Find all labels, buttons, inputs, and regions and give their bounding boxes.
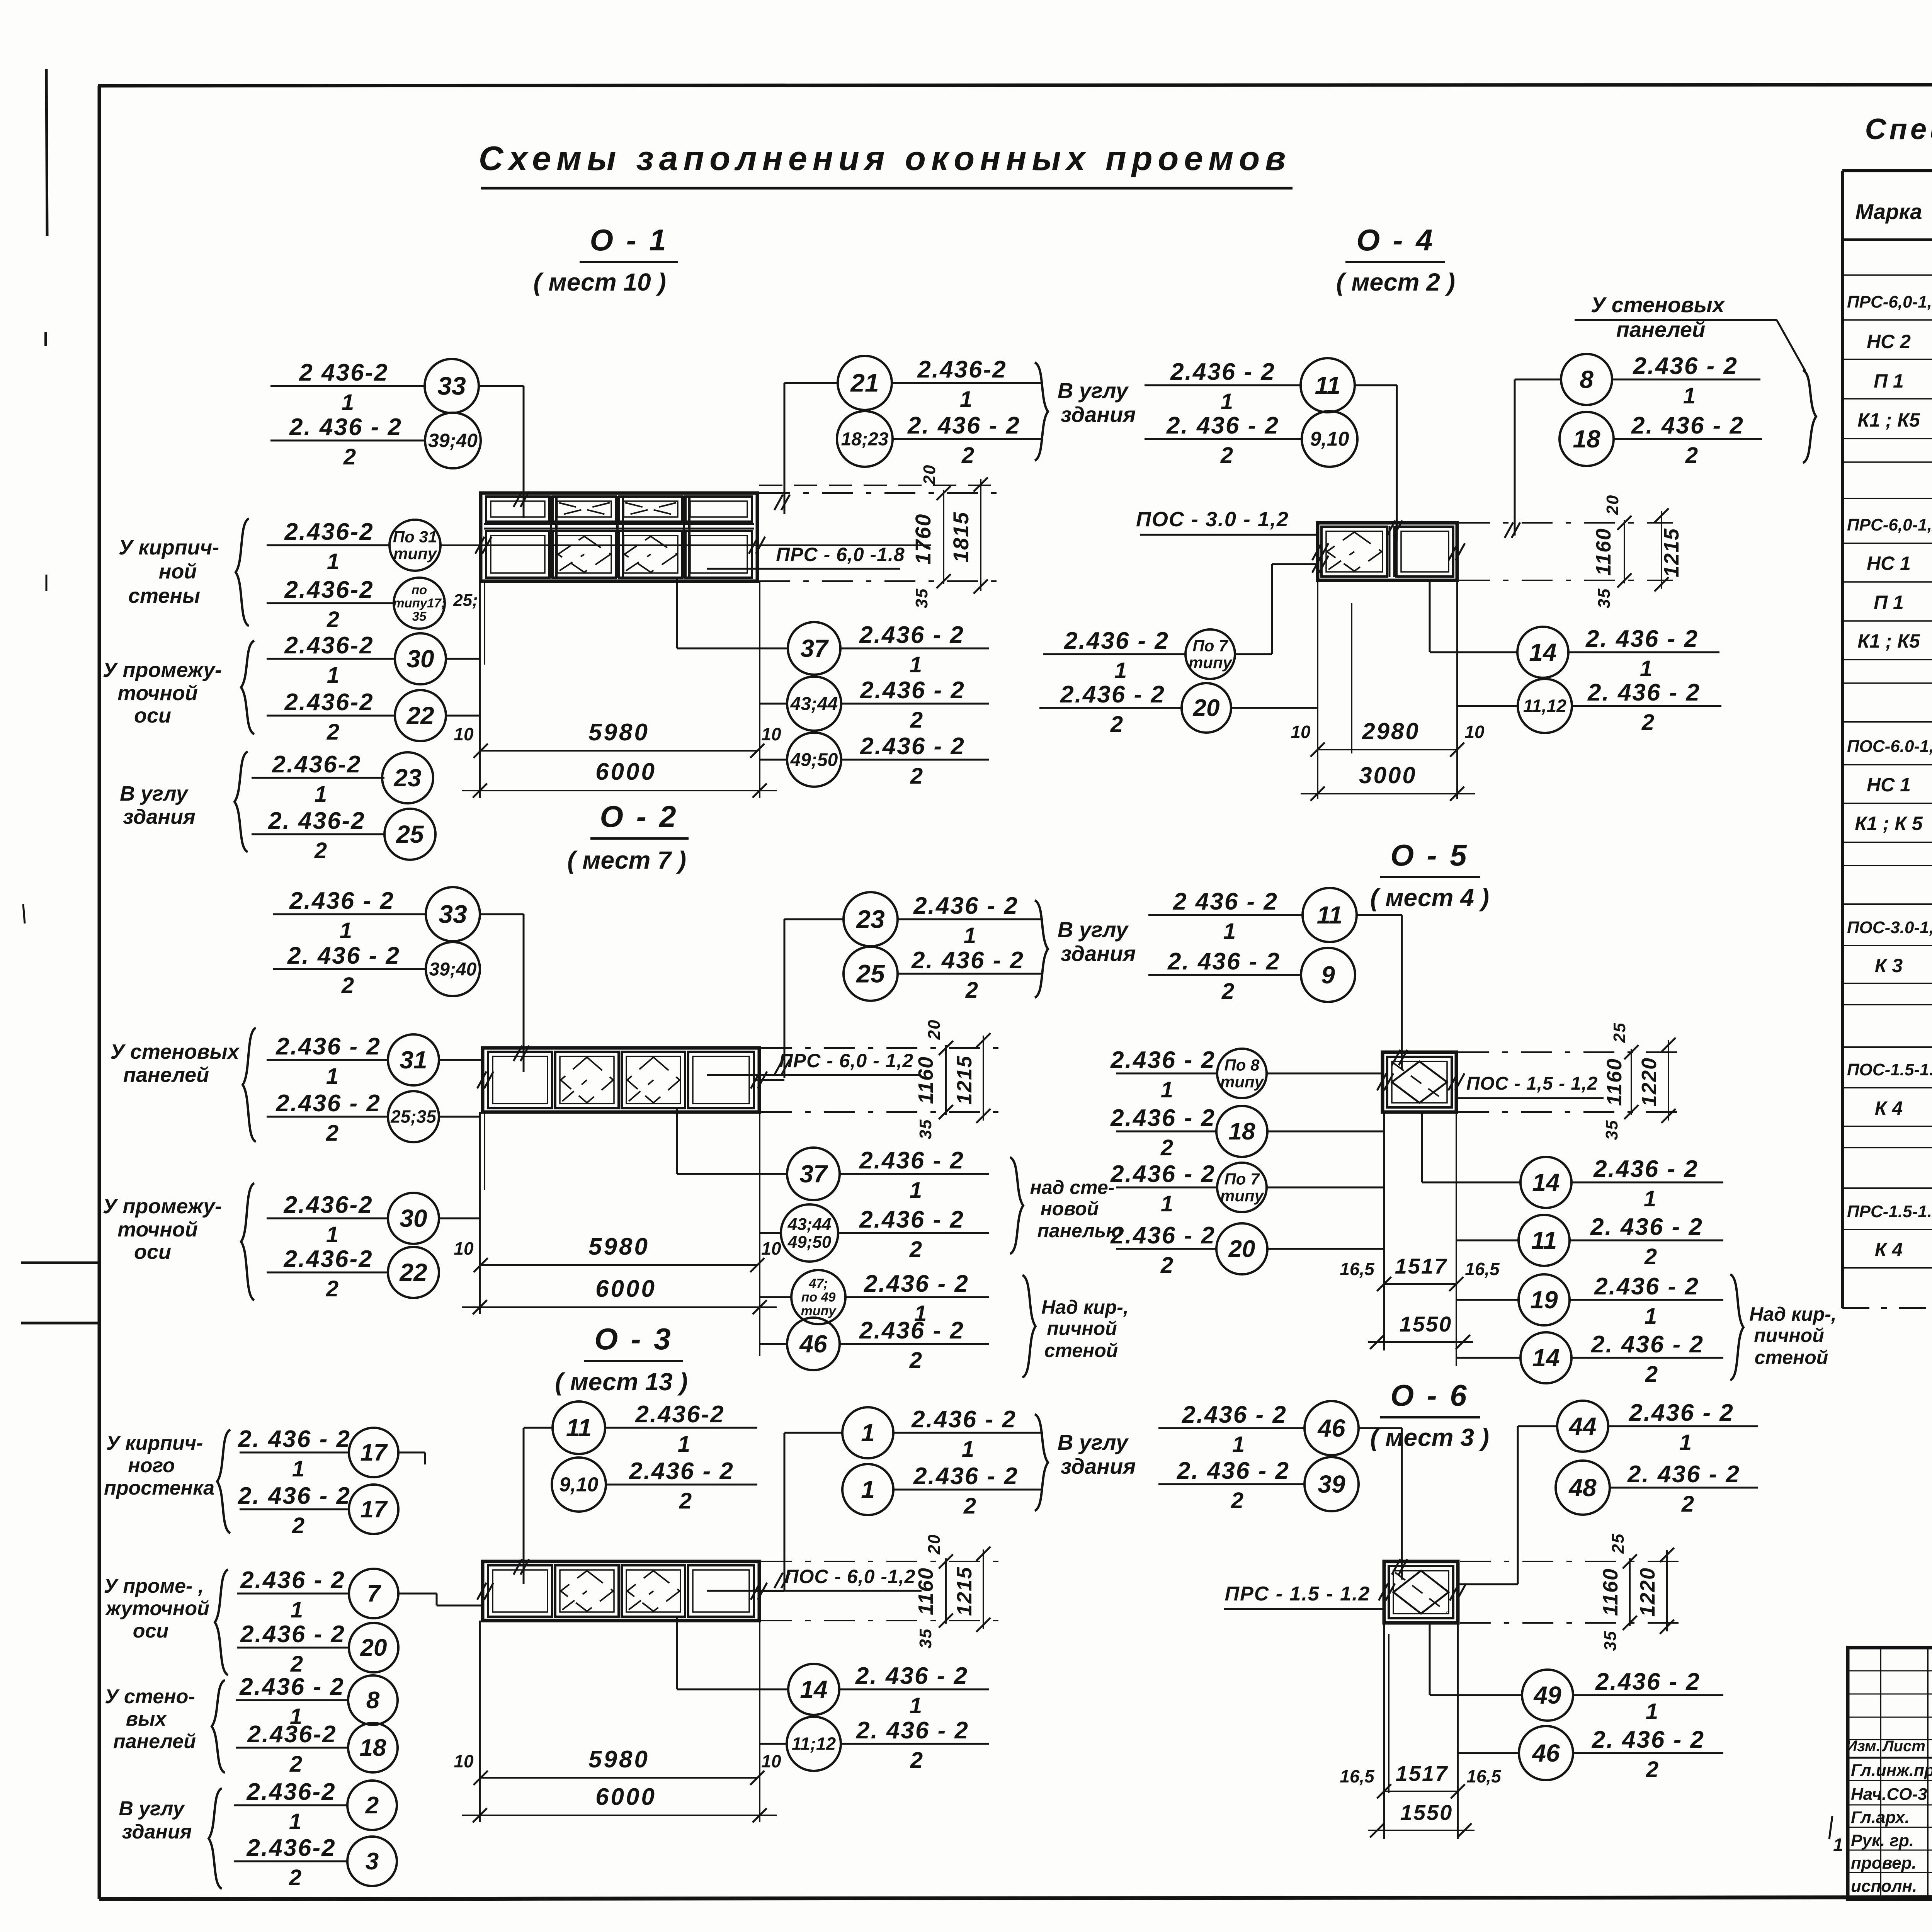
svg-text:18;23: 18;23 <box>841 429 889 449</box>
svg-text:2980: 2980 <box>1362 718 1420 744</box>
svg-text:О - 6: О - 6 <box>1390 1378 1469 1412</box>
svg-text:По 31: По 31 <box>393 527 437 546</box>
callout 47 по 49 типу <box>791 1270 845 1324</box>
svg-text:1220: 1220 <box>1638 1057 1661 1107</box>
dim 6000 O-1 <box>462 790 777 791</box>
svg-text:11,12: 11,12 <box>1523 696 1566 716</box>
svg-text:20: 20 <box>925 1534 944 1555</box>
svg-text:( мест 7 ): ( мест 7 ) <box>567 846 686 874</box>
svg-text:2 436 - 2: 2 436 - 2 <box>1173 888 1278 915</box>
svg-text:2.436 - 2: 2.436 - 2 <box>239 1673 345 1700</box>
svg-text:ПОС - 3.0 - 1,2: ПОС - 3.0 - 1,2 <box>1136 508 1289 531</box>
svg-text:1: 1 <box>861 1419 875 1447</box>
spec table header row <box>1842 238 1932 241</box>
svg-text:18: 18 <box>1229 1118 1255 1145</box>
svg-text:2. 436 - 2: 2. 436 - 2 <box>911 947 1024 974</box>
callout 37 with leader <box>788 622 840 675</box>
svg-text:2.436 - 2: 2.436 - 2 <box>1633 353 1738 379</box>
brace label В углу здания O-2 <box>1035 900 1048 998</box>
svg-text:1: 1 <box>291 1597 303 1622</box>
spec table outer frame <box>1842 169 1932 172</box>
svg-text:2: 2 <box>289 1752 302 1777</box>
svg-text:16,5: 16,5 <box>1340 1766 1375 1786</box>
svg-text:25: 25 <box>855 959 885 988</box>
window O-1 transom <box>484 523 754 525</box>
svg-text:2.436-2: 2.436-2 <box>917 356 1007 383</box>
svg-text:2: 2 <box>1645 1362 1658 1387</box>
svg-text:3: 3 <box>366 1848 379 1875</box>
svg-text:2.436 - 2: 2.436 - 2 <box>1110 1047 1216 1073</box>
svg-text:2: 2 <box>289 1865 301 1890</box>
callout 48 O-6 <box>1556 1461 1610 1515</box>
dim 1215 O-3 <box>983 1549 984 1629</box>
svg-text:У промежу-: У промежу- <box>103 1195 222 1218</box>
title block vertical lines <box>1880 1648 1881 1899</box>
svg-text:пичной: пичной <box>1047 1318 1117 1339</box>
svg-text:2.436 - 2: 2.436 - 2 <box>1629 1400 1734 1426</box>
svg-text:11: 11 <box>1317 901 1342 929</box>
svg-text:В углу: В углу <box>120 782 189 805</box>
callout 11;12 O-3 <box>787 1717 841 1771</box>
svg-text:2: 2 <box>910 764 923 789</box>
svg-text:2. 436 - 2: 2. 436 - 2 <box>1166 412 1279 439</box>
callout 17b <box>240 1509 349 1510</box>
svg-text:По 7: По 7 <box>1225 1170 1260 1188</box>
svg-text:25;: 25; <box>453 591 478 610</box>
svg-text:2.436 - 2: 2.436 - 2 <box>859 1317 964 1344</box>
svg-text:1215: 1215 <box>953 1055 976 1105</box>
svg-text:49;50: 49;50 <box>787 1233 832 1252</box>
callout 22 <box>267 715 395 717</box>
svg-text:Лист: Лист <box>1882 1738 1925 1755</box>
svg-text:По 7: По 7 <box>1193 636 1229 655</box>
svg-text:по 49: по 49 <box>801 1290 836 1305</box>
svg-text:1215: 1215 <box>953 1566 976 1616</box>
callout 14b O-5 <box>1520 1332 1571 1383</box>
svg-text:10: 10 <box>454 1751 474 1771</box>
svg-text:1: 1 <box>910 1178 922 1203</box>
callout 20 O-5 <box>1116 1248 1216 1250</box>
svg-text:О - 3: О - 3 <box>594 1322 673 1356</box>
svg-text:2. 436 - 2: 2. 436 - 2 <box>1177 1458 1290 1484</box>
svg-text:О - 1: О - 1 <box>590 223 668 257</box>
svg-text:1220: 1220 <box>1636 1567 1659 1617</box>
svg-text:исполн.: исполн. <box>1851 1877 1917 1896</box>
svg-text:2.436 - 2: 2.436 - 2 <box>276 1090 381 1117</box>
dim 2980 O-4 <box>1318 749 1457 750</box>
svg-text:2.436 - 2: 2.436 - 2 <box>276 1033 381 1060</box>
svg-text:9,10: 9,10 <box>1310 428 1349 451</box>
fold marks left margin <box>21 1262 99 1264</box>
brace label В углу здания O-3 <box>1035 1414 1048 1511</box>
window O-1 axis line <box>440 544 931 546</box>
svg-text:47;: 47; <box>808 1276 828 1291</box>
svg-text:Гл.инж.пр: Гл.инж.пр <box>1851 1761 1932 1780</box>
svg-text:39;40: 39;40 <box>428 430 478 451</box>
dim 1760 vertical <box>943 490 944 584</box>
svg-text:здания: здания <box>1061 941 1136 966</box>
svg-text:панелью: панелью <box>1037 1220 1123 1242</box>
svg-text:22: 22 <box>406 702 434 730</box>
svg-text:49: 49 <box>1533 1681 1561 1709</box>
callout 18 O-4 <box>1560 412 1614 466</box>
svg-text:У промежу-: У промежу- <box>103 658 222 682</box>
callout 8 O-3 <box>236 1699 348 1701</box>
svg-text:2.436 - 2: 2.436 - 2 <box>240 1621 345 1648</box>
svg-text:16,5: 16,5 <box>1340 1259 1375 1279</box>
svg-text:НС 2: НС 2 <box>1867 331 1911 352</box>
svg-text:1: 1 <box>327 549 339 574</box>
svg-text:У стеновых: У стеновых <box>110 1040 240 1063</box>
svg-text:К 4: К 4 <box>1875 1239 1903 1260</box>
svg-text:2.436 - 2: 2.436 - 2 <box>289 888 395 914</box>
callout 9,10 O-3 <box>552 1458 606 1512</box>
svg-text:1: 1 <box>1833 1835 1843 1855</box>
svg-text:пичной: пичной <box>1754 1325 1824 1346</box>
svg-text:19: 19 <box>1530 1286 1558 1314</box>
svg-text:17: 17 <box>361 1439 388 1466</box>
svg-text:49;50: 49;50 <box>790 750 838 770</box>
svg-text:2. 436 - 2: 2. 436 - 2 <box>907 412 1020 439</box>
svg-text:2. 436 - 2: 2. 436 - 2 <box>1590 1214 1703 1240</box>
svg-text:25: 25 <box>396 820 424 848</box>
svg-text:30: 30 <box>400 1204 427 1232</box>
svg-text:1760: 1760 <box>911 514 935 565</box>
svg-text:35: 35 <box>916 1628 935 1649</box>
svg-text:31: 31 <box>400 1046 427 1074</box>
svg-text:2.436-2: 2.436-2 <box>246 1835 336 1861</box>
svg-text:18: 18 <box>360 1735 386 1761</box>
extension lines O-6 dims <box>1460 1561 1686 1562</box>
callout 25;35 <box>267 1116 388 1118</box>
svg-text:25;35: 25;35 <box>390 1107 437 1127</box>
dim 1160 O-4 <box>1624 520 1625 583</box>
svg-text:2.436 - 2: 2.436 - 2 <box>1110 1161 1216 1187</box>
dim 1160 O-5 <box>1631 1049 1632 1115</box>
svg-text:1: 1 <box>678 1432 690 1457</box>
svg-text:2.436-2: 2.436-2 <box>246 1779 336 1805</box>
extension lines O-1 vertical dims <box>759 492 1005 494</box>
svg-text:46: 46 <box>1531 1739 1560 1767</box>
callout 39 O-6 <box>1158 1483 1304 1485</box>
window O-1 jamb extension lines <box>479 581 481 798</box>
callout 23 <box>252 777 384 779</box>
callout 49;50 <box>787 733 841 787</box>
svg-text:2. 436 - 2: 2. 436 - 2 <box>287 942 400 969</box>
svg-text:35: 35 <box>1595 588 1614 609</box>
svg-text:2: 2 <box>1646 1757 1658 1782</box>
svg-text:над сте-: над сте- <box>1030 1177 1115 1198</box>
svg-text:10: 10 <box>761 724 781 744</box>
brace and label В углу здания right O-1 <box>1035 362 1048 461</box>
svg-text:2.436-2: 2.436-2 <box>284 519 374 545</box>
svg-text:Над кир-,: Над кир-, <box>1041 1296 1129 1318</box>
svg-text:10: 10 <box>454 1238 474 1259</box>
callout 3 <box>234 1861 347 1862</box>
dim 1517 O-5 <box>1384 1283 1456 1285</box>
svg-text:2. 436 - 2: 2. 436 - 2 <box>1631 412 1744 439</box>
callout 14 O-3 <box>788 1664 839 1715</box>
extension lines O-2 dims <box>761 1047 1005 1049</box>
svg-text:2. 436 - 2: 2. 436 - 2 <box>1591 1331 1704 1358</box>
svg-text:8: 8 <box>1580 366 1594 393</box>
svg-text:2: 2 <box>292 1513 304 1538</box>
svg-text:2: 2 <box>909 1348 922 1373</box>
svg-text:2: 2 <box>965 978 978 1003</box>
dim 1215 O-2 <box>983 1036 984 1121</box>
svg-text:2: 2 <box>1681 1492 1694 1517</box>
svg-text:6000: 6000 <box>595 759 656 785</box>
svg-text:2: 2 <box>365 1792 379 1819</box>
svg-text:панелей: панелей <box>123 1063 209 1087</box>
svg-text:33: 33 <box>439 900 467 928</box>
svg-text:ПОС - 1,5 - 1,2: ПОС - 1,5 - 1,2 <box>1466 1073 1598 1094</box>
svg-text:37: 37 <box>800 634 829 662</box>
dim 1550 O-6 <box>1368 1830 1475 1831</box>
svg-text:ПРС-6,0-1,8: ПРС-6,0-1,8 <box>1847 293 1932 311</box>
callout 49 O-6 <box>1522 1670 1573 1721</box>
title block outer frame <box>1848 1648 1932 1899</box>
svg-text:2: 2 <box>679 1488 692 1514</box>
svg-text:точной: точной <box>117 682 198 705</box>
O-5 jamb extensions <box>1383 1112 1385 1350</box>
dim 6000 O-3 <box>462 1815 777 1816</box>
svg-text:23: 23 <box>393 764 421 792</box>
svg-text:2.436 - 2: 2.436 - 2 <box>1064 628 1169 654</box>
callout 20 O-4 <box>1039 707 1182 709</box>
window O-2 axis marks <box>477 1071 486 1088</box>
svg-text:11: 11 <box>566 1414 592 1442</box>
callout 37 O-2 <box>787 1148 840 1200</box>
svg-text:2: 2 <box>909 1237 922 1262</box>
svg-text:жуточной: жуточной <box>105 1597 209 1620</box>
svg-text:типу: типу <box>1189 653 1233 672</box>
callout 31 <box>267 1059 388 1061</box>
O-2 jamb extensions <box>479 1112 481 1314</box>
svg-text:8: 8 <box>366 1687 380 1714</box>
svg-text:20: 20 <box>1193 695 1220 721</box>
svg-text:2: 2 <box>961 443 974 468</box>
svg-text:ПРС - 6,0 -1.8: ПРС - 6,0 -1.8 <box>776 544 905 565</box>
svg-text:К1 ; К5: К1 ; К5 <box>1857 630 1920 652</box>
svg-text:2.436 - 2: 2.436 - 2 <box>1593 1156 1699 1182</box>
svg-text:1: 1 <box>1679 1430 1692 1455</box>
svg-text:П 1: П 1 <box>1874 370 1904 392</box>
svg-text:типу: типу <box>393 544 438 563</box>
svg-text:10: 10 <box>454 724 474 744</box>
svg-text:У кирпич-: У кирпич- <box>119 536 219 559</box>
svg-text:1160: 1160 <box>1599 1568 1622 1616</box>
svg-text:1160: 1160 <box>914 1056 937 1104</box>
svg-text:1: 1 <box>342 390 354 415</box>
callout 14 O-4 <box>1517 627 1568 678</box>
callout 30 O-2 <box>267 1218 388 1219</box>
svg-text:11: 11 <box>1531 1226 1557 1254</box>
svg-text:ПРС - 1.5 - 1.2: ПРС - 1.5 - 1.2 <box>1225 1583 1371 1605</box>
svg-text:35: 35 <box>916 1119 935 1139</box>
callout 9,10 O-4 <box>1145 438 1301 440</box>
svg-text:К1 ; К 5: К1 ; К 5 <box>1855 813 1923 834</box>
svg-text:НС 1: НС 1 <box>1867 553 1911 574</box>
svg-text:У проме- ,: У проме- , <box>104 1575 204 1597</box>
svg-text:14: 14 <box>1532 1168 1560 1196</box>
callout 11,12 O-4 <box>1518 679 1572 733</box>
svg-text:2: 2 <box>910 1748 923 1773</box>
callout 43;44 49;50 O-2 <box>781 1204 838 1262</box>
svg-text:Спецификация заполнения окон: Спецификация заполнения оконных проемов <box>1865 113 1932 146</box>
svg-text:35: 35 <box>412 609 427 624</box>
callout По 7 типу O-4 <box>1043 653 1185 655</box>
window O-1 top panes <box>486 497 549 522</box>
svg-text:О - 2: О - 2 <box>600 799 678 833</box>
svg-text:точной: точной <box>117 1218 198 1241</box>
callout 46b O-6 <box>1519 1726 1573 1780</box>
svg-text:1: 1 <box>1221 389 1233 414</box>
callout 11 O-4 <box>1145 384 1301 386</box>
callout 14 O-5 <box>1520 1157 1571 1208</box>
svg-text:оси: оси <box>134 704 171 727</box>
callout 1b right O-3 <box>842 1464 893 1515</box>
svg-text:2: 2 <box>1685 443 1698 468</box>
svg-text:простенка: простенка <box>104 1477 214 1499</box>
callout 18;23 <box>837 411 893 467</box>
svg-text:1550: 1550 <box>1400 1800 1453 1825</box>
svg-text:К 3: К 3 <box>1875 955 1903 976</box>
svg-text:П 1: П 1 <box>1874 592 1904 613</box>
svg-text:1815: 1815 <box>949 512 973 563</box>
svg-text:2.436 - 2: 2.436 - 2 <box>1110 1222 1216 1249</box>
svg-text:2. 436 - 2: 2. 436 - 2 <box>238 1426 351 1452</box>
svg-text:2: 2 <box>341 973 354 998</box>
svg-text:1: 1 <box>1645 1304 1657 1329</box>
window O-4 <box>1318 523 1457 580</box>
svg-text:2: 2 <box>1231 1488 1243 1513</box>
extension lines O-4 dims <box>1459 522 1673 524</box>
svg-text:по: по <box>412 583 427 597</box>
svg-text:14: 14 <box>800 1675 827 1703</box>
scan edge line left <box>46 69 47 236</box>
svg-text:5980: 5980 <box>588 1233 650 1260</box>
svg-text:2: 2 <box>314 838 327 863</box>
svg-text:3000: 3000 <box>1359 762 1417 788</box>
svg-text:2.436-2: 2.436-2 <box>283 1192 373 1218</box>
dim 1160 O-6 <box>1629 1558 1631 1626</box>
callout 25 <box>252 833 384 835</box>
svg-text:провер.: провер. <box>1851 1854 1917 1872</box>
svg-text:10: 10 <box>1291 722 1311 742</box>
svg-text:9,10: 9,10 <box>559 1474 598 1496</box>
svg-text:2: 2 <box>326 1276 338 1301</box>
svg-text:1: 1 <box>1161 1191 1173 1216</box>
svg-text:ПОС - 6,0 -1,2: ПОС - 6,0 -1,2 <box>785 1566 916 1587</box>
svg-text:2.436 - 2: 2.436 - 2 <box>1060 681 1165 708</box>
svg-text:5980: 5980 <box>588 719 650 746</box>
svg-text:2.436 - 2: 2.436 - 2 <box>860 677 965 704</box>
svg-text:1: 1 <box>962 1437 974 1462</box>
svg-text:6000: 6000 <box>595 1784 656 1810</box>
svg-text:2.436 - 2: 2.436 - 2 <box>1594 1273 1699 1300</box>
dim 1815 vertical <box>980 479 981 591</box>
svg-text:2.436-2: 2.436-2 <box>247 1721 337 1748</box>
svg-text:35: 35 <box>912 588 931 609</box>
svg-text:20: 20 <box>925 1019 944 1040</box>
svg-text:25: 25 <box>1610 1022 1629 1043</box>
callout 7 <box>237 1593 349 1595</box>
callout 22 O-2 <box>267 1272 388 1274</box>
dim 1550 O-5 <box>1368 1341 1473 1343</box>
dim 1215 O-4 <box>1661 511 1662 589</box>
svg-text:1160: 1160 <box>914 1567 937 1615</box>
svg-text:14: 14 <box>1529 638 1556 666</box>
svg-text:1: 1 <box>292 1456 304 1481</box>
brace label Над кирпичной стеной O-5 <box>1730 1274 1743 1380</box>
svg-text:2.436 - 2: 2.436 - 2 <box>1110 1105 1216 1131</box>
svg-text:20: 20 <box>360 1634 387 1661</box>
svg-text:оси: оси <box>134 1240 171 1264</box>
window O-5 <box>1383 1052 1456 1112</box>
svg-text:2: 2 <box>1221 979 1234 1004</box>
svg-text:стены: стены <box>128 584 200 607</box>
svg-text:В углу: В углу <box>1058 917 1129 942</box>
svg-text:1: 1 <box>1223 919 1236 944</box>
svg-text:У кирпич-: У кирпич- <box>106 1432 203 1454</box>
svg-text:О - 5: О - 5 <box>1390 838 1469 872</box>
svg-text:1: 1 <box>960 387 972 412</box>
svg-text:1517: 1517 <box>1396 1761 1449 1786</box>
svg-text:2: 2 <box>327 719 339 745</box>
svg-text:16,5: 16,5 <box>1465 1259 1500 1279</box>
svg-text:2: 2 <box>1644 1244 1657 1269</box>
svg-text:2.436 - 2: 2.436 - 2 <box>1595 1668 1701 1695</box>
brace label над кирпичной стеной O-2 <box>1022 1275 1036 1378</box>
svg-text:По 8: По 8 <box>1225 1056 1260 1074</box>
svg-text:Над кир-,: Над кир-, <box>1749 1303 1837 1325</box>
svg-text:2. 436 - 2: 2. 436 - 2 <box>289 414 402 440</box>
svg-text:Изм.: Изм. <box>1846 1738 1880 1755</box>
svg-text:ПОС-1.5-1.2: ПОС-1.5-1.2 <box>1847 1060 1932 1079</box>
svg-text:О - 4: О - 4 <box>1356 223 1435 257</box>
svg-text:1: 1 <box>1232 1432 1245 1457</box>
callout 11 O-3 <box>553 1401 605 1454</box>
svg-text:2 436-2: 2 436-2 <box>299 359 388 386</box>
callout 20 O-3 <box>237 1647 349 1649</box>
dim 1160 O-2 <box>945 1045 947 1115</box>
callout 11 O-5 <box>1148 914 1303 916</box>
svg-text:В углу: В углу <box>119 1798 185 1820</box>
callout 44 O-6 <box>1557 1401 1608 1452</box>
spec table row separator lines <box>1844 274 1932 276</box>
svg-text:2: 2 <box>343 444 356 469</box>
svg-text:6000: 6000 <box>595 1276 656 1302</box>
svg-text:11: 11 <box>1315 371 1340 399</box>
svg-text:1: 1 <box>326 1222 338 1247</box>
callout 17 <box>240 1452 349 1454</box>
window O-6 <box>1384 1561 1458 1623</box>
svg-text:2: 2 <box>910 707 923 733</box>
callout 43;44 <box>787 677 841 731</box>
svg-text:1: 1 <box>315 782 327 807</box>
svg-text:типу17;: типу17; <box>393 596 446 610</box>
svg-text:В углу: В углу <box>1058 1430 1129 1454</box>
svg-text:18: 18 <box>1573 425 1600 453</box>
svg-text:2.436 - 2: 2.436 - 2 <box>859 1206 964 1233</box>
svg-text:2.436 - 2: 2.436 - 2 <box>240 1567 345 1594</box>
svg-text:1: 1 <box>964 923 976 948</box>
svg-text:здания: здания <box>123 805 196 828</box>
svg-text:Схемы заполнения оконных пр: Схемы заполнения оконных проемов <box>479 139 1291 177</box>
dim 1220 O-6 <box>1666 1550 1668 1631</box>
callout 1 right O-3 <box>842 1407 893 1458</box>
